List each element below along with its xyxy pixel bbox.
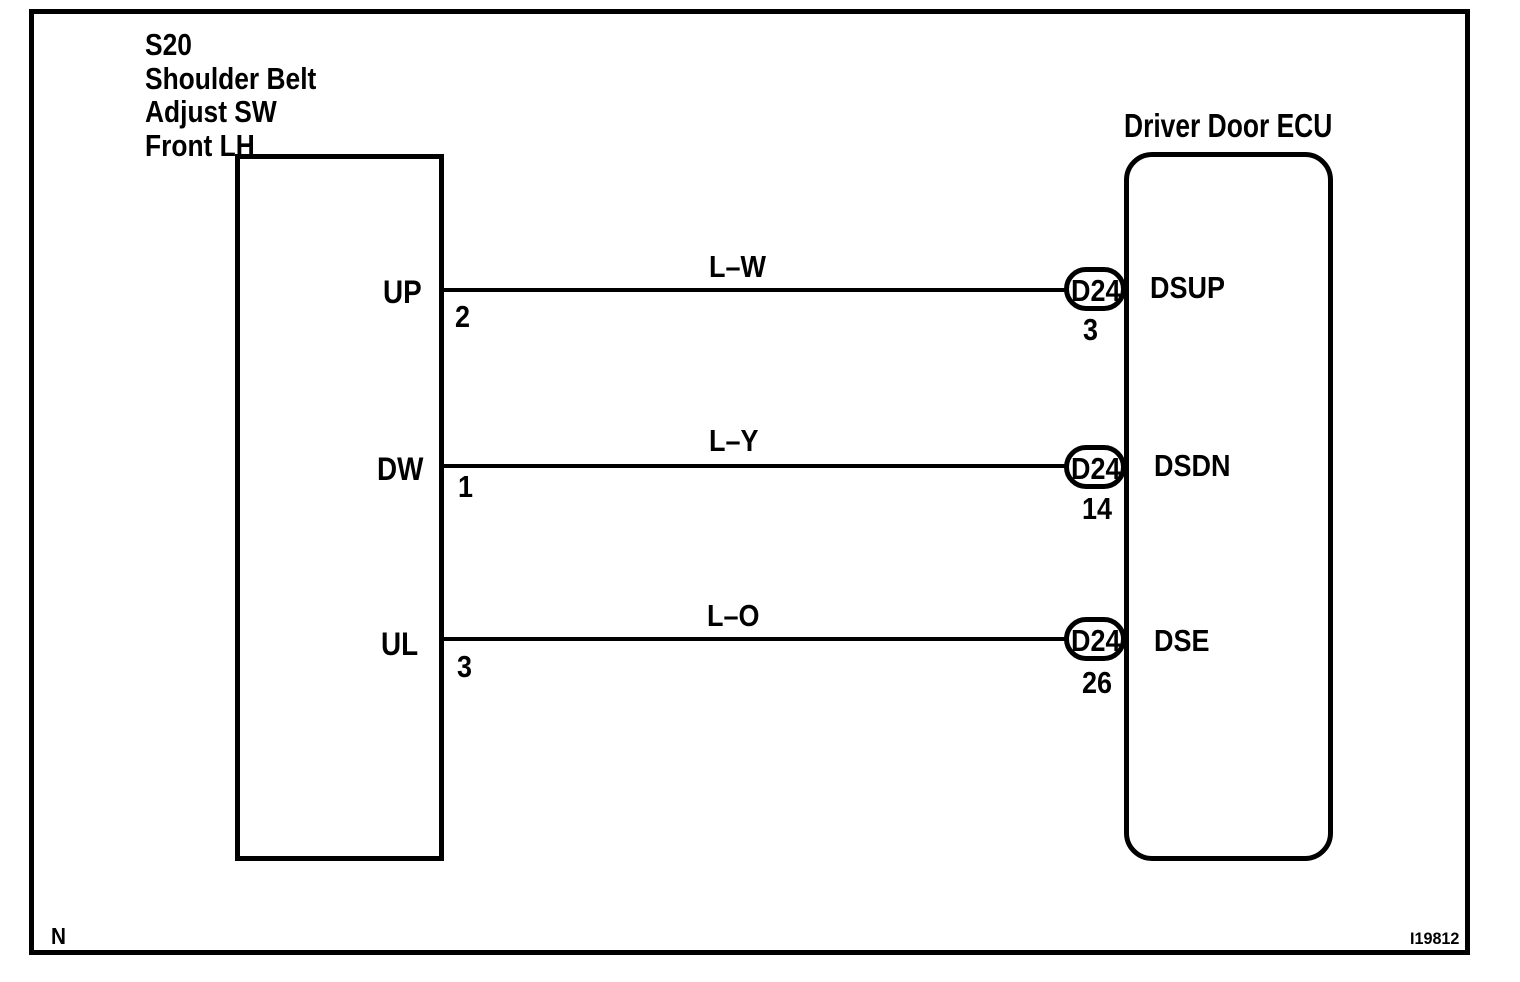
ECU U1 box	[1124, 152, 1333, 861]
connector D24 pin 3 text	[1071, 275, 1120, 306]
wire L-W net	[444, 288, 1066, 292]
node N page marker	[51, 925, 66, 948]
pin label UP	[383, 276, 422, 308]
connector D24 pin 14 oval	[1064, 445, 1126, 489]
pin number 2	[455, 301, 470, 332]
wire label L-Y	[709, 425, 758, 456]
wire L-Y net	[444, 464, 1066, 468]
pin number 14 below oval	[1082, 493, 1112, 524]
ECU pin name DSE	[1154, 625, 1209, 656]
pin number 3	[457, 651, 472, 682]
pin number 26 below oval	[1082, 667, 1112, 698]
ECU label Driver Door ECU	[1124, 109, 1332, 142]
switch S20 label	[145, 28, 316, 162]
wire label L-W	[709, 251, 766, 282]
ECU pin name DSUP	[1150, 272, 1225, 303]
pin label UL	[381, 628, 418, 660]
ECU pin name DSDN	[1154, 450, 1230, 481]
connector D24 pin 26 oval	[1064, 617, 1126, 661]
pin number 3 below oval	[1083, 314, 1098, 345]
pin label DW	[377, 453, 423, 485]
connector D24 pin 3 oval	[1064, 267, 1126, 311]
switch S20 box	[235, 154, 444, 861]
wire label L-O	[707, 600, 759, 631]
connector D24 pin 26 text	[1071, 625, 1120, 656]
pin number 1	[458, 471, 473, 502]
figure id I19812	[1410, 930, 1459, 947]
connector D24 pin 14 text	[1071, 453, 1120, 484]
wire L-O net	[444, 637, 1066, 641]
